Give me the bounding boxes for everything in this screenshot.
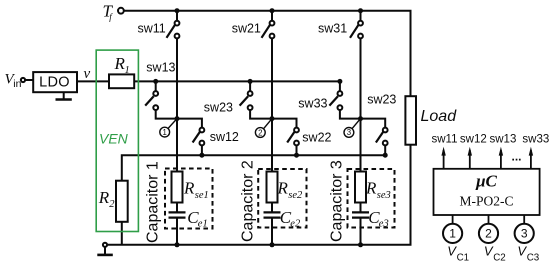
svg-text:Load: Load [421,108,458,125]
resistor R2 [116,181,128,222]
wire LDO to R1 [77,80,109,82]
wire Vin to LDO [25,79,33,81]
capacitor 2 dashed box [258,169,306,228]
svg-text:sw13: sw13 [490,133,517,145]
node bottom bus junction 1 [175,242,180,247]
svg-text:Capacitor 3: Capacitor 3 [329,160,346,242]
svg-text:se3: se3 [377,190,391,201]
wire cell 2 vertical [271,38,273,212]
label Vin [5,72,22,90]
svg-text:se2: se2 [288,190,303,201]
svg-text:R: R [365,179,377,198]
svg-text:...: ... [512,150,522,164]
node v bus junction sw33 [337,79,342,84]
svg-text:1: 1 [125,65,130,76]
svg-text:M-PO2-C: M-PO2-C [459,194,513,209]
node 2 circled label [255,119,272,138]
node 3 junction [358,116,363,121]
label Rse3 [365,179,391,201]
label R2 [98,188,116,210]
svg-text:1: 1 [449,227,456,241]
node bottom bus junction 2 [270,242,275,247]
svg-text:sw11: sw11 [138,21,166,35]
arrow sw33 out [529,147,533,169]
svg-text:Capacitor 1: Capacitor 1 [145,161,162,243]
switch sw12 [177,119,204,156]
node 3 circled label [344,119,361,138]
label Ce1 [187,208,207,230]
switch sw13 [145,81,177,118]
svg-text:sw33: sw33 [522,133,549,145]
node v bus junction sw13 [153,79,158,84]
resistor R1 [109,74,134,88]
label VC1 [447,244,469,264]
svg-text:sw23: sw23 [367,92,396,106]
svg-text:R: R [277,179,289,198]
switch sw23 [240,81,272,118]
label R1 [114,54,130,76]
capacitor 1 dashed box [165,169,213,229]
switch sw21 [262,11,275,39]
svg-text:sw13: sw13 [146,61,175,75]
svg-text:R: R [183,179,195,198]
VEN green box [96,50,138,231]
svg-text:C1: C1 [457,253,470,264]
label VC2 [484,244,506,264]
arrow sw11 out [441,147,445,169]
capacitor Ce3 [352,212,369,217]
node discharge bus junction sw22 [294,153,299,158]
node 2 junction [270,116,275,121]
LDO regulator box [33,72,77,92]
svg-text:sw33: sw33 [298,97,327,111]
svg-text:sw23: sw23 [204,100,233,114]
pin 3 circle [515,215,534,243]
wire R2 bottom [121,222,123,245]
svg-text:in: in [13,78,21,90]
svg-text:v: v [84,66,91,82]
svg-text:3: 3 [521,227,528,241]
svg-text:2: 2 [109,199,115,210]
svg-text:e1: e1 [198,219,208,230]
node bottom bus junction 3 [358,242,363,247]
terminal Vin [21,78,25,82]
svg-text:Capacitor 2: Capacitor 2 [240,160,257,242]
svg-text:C2: C2 [493,253,506,264]
pin 1 circle [443,215,462,243]
node top bus junction 1 [175,8,180,13]
svg-text:T: T [103,2,114,21]
label Ce3 [368,208,388,230]
wire bottom ground bus [107,145,410,245]
svg-text:μC: μC [475,172,497,191]
node 1 junction [175,116,180,121]
svg-text:sw12: sw12 [460,133,487,145]
node top bus junction 3 [358,8,363,13]
wire v bus [134,80,340,82]
wire top bus Tf [124,11,411,97]
wire discharge bus to R2 top [122,155,385,181]
resistor Rse2 [267,172,278,203]
svg-text:VEN: VEN [99,131,129,147]
label Ce2 [280,208,301,230]
switch sw33 [329,81,360,118]
wire cell 3 vertical [360,38,362,212]
arrow sw12 out [468,147,472,169]
node discharge bus junction sw32 [383,153,388,158]
capacitor Ce1 [169,212,186,217]
resistor Load [405,96,416,145]
microcontroller U1 box [434,169,540,215]
label Rse1 [183,179,209,201]
svg-text:2: 2 [258,128,262,137]
capacitor Ce2 [264,212,281,217]
svg-text:sw22: sw22 [302,131,331,145]
switch sw22 [272,119,299,156]
svg-text:sw11: sw11 [432,133,458,145]
node discharge bus junction sw12 [199,153,204,158]
arrow sw13 out [499,147,503,169]
node v bus junction sw23 [248,79,253,84]
svg-text:3: 3 [347,128,351,137]
svg-text:sw12: sw12 [210,130,239,144]
wire cell 3 cap bottom [360,218,362,245]
ground bottom left terminal [97,243,113,255]
svg-text:R: R [98,188,110,207]
svg-text:LDO: LDO [39,75,70,91]
switch sw32 [361,119,388,156]
pin 2 circle [479,215,498,243]
terminal Tf [118,8,124,14]
switch sw11 [167,11,180,39]
wire cell 1 vertical [176,38,178,212]
svg-text:e2: e2 [290,219,301,230]
resistor Rse1 [172,172,183,203]
wire cell 1 cap bottom [176,218,178,245]
svg-text:e3: e3 [379,219,389,230]
node top bus junction 2 [270,8,275,13]
svg-text:C3: C3 [527,253,540,264]
wire cell 2 cap bottom [271,218,273,245]
resistor Rse3 [355,172,366,203]
label Rse2 [277,179,304,201]
svg-text:se1: se1 [195,190,209,201]
svg-text:2: 2 [485,227,492,241]
svg-text:1: 1 [163,128,167,137]
switch sw31 [350,11,363,39]
ground LDO [56,92,72,99]
label VC3 [517,244,539,264]
node 1 circled label [160,119,177,137]
svg-text:sw31: sw31 [318,21,347,35]
capacitor 3 dashed box [348,169,395,228]
svg-text:sw21: sw21 [232,21,261,35]
label Tf [103,2,114,22]
